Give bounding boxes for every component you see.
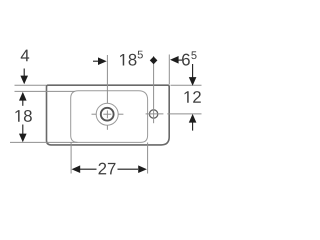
- faucet centerline horizontal: [92, 113, 97, 115]
- extension line left bowl rim: [15, 90, 75, 92]
- dim 12 label: [185, 91, 189, 103]
- extension line 27 left: [70, 143, 72, 174]
- inner bowl outline: [71, 91, 148, 143]
- tap hole centerline vertical: [153, 56, 155, 123]
- dim 18.5 superscript: [138, 51, 143, 59]
- dim 27 line right + arrow: [118, 168, 139, 170]
- dim 18.5 arrow right: [93, 60, 100, 62]
- dim 27 line left + arrow: [72, 165, 81, 173]
- extension line top right horizontal: [171, 84, 202, 86]
- extension line bottom left: [10, 141, 78, 143]
- dim 6.5 arrow left: [170, 56, 179, 64]
- extension line right edge up: [168, 55, 170, 85]
- dim 18 arrow up: [19, 92, 27, 101]
- extension line top left (rim): [15, 84, 47, 86]
- faucet hole outer circle: [96, 103, 118, 125]
- dim 12 arrow up: [189, 114, 197, 123]
- dim 4 label: [21, 50, 29, 62]
- dim 18 arrow down: [22, 125, 24, 135]
- dim 18 label: [15, 110, 19, 122]
- dim 6.5 superscript: [191, 51, 196, 59]
- tap hole small circle: [149, 110, 157, 118]
- tap hole centerline horizontal / 12 lower extension: [146, 113, 164, 115]
- dim 12 arrow down: [192, 64, 194, 78]
- shared terminator diamond: [150, 57, 158, 65]
- faucet centerline vertical: [106, 55, 108, 103]
- extension line 27 right: [147, 143, 149, 174]
- dim 18.5 label: [120, 54, 124, 66]
- dim 27 label: [99, 163, 107, 175]
- dim 6.5 label: [182, 54, 190, 66]
- washbasin outer outline: [47, 85, 170, 145]
- faucet hole inner circle: [101, 108, 114, 121]
- dim 4 arrow down: [23, 69, 25, 78]
